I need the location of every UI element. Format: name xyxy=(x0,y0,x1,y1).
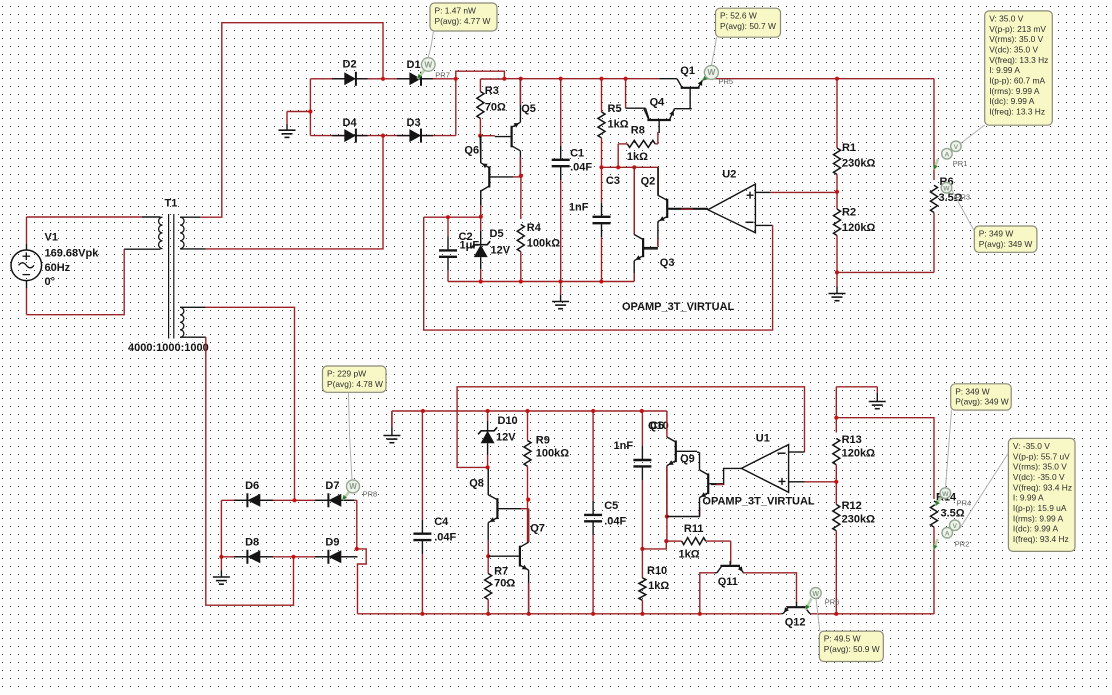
ground top bridge xyxy=(287,111,310,113)
junction mid rail R9 xyxy=(525,409,529,413)
probe PR6 tooltip xyxy=(819,631,883,661)
label R7 70ohm xyxy=(494,566,515,590)
wire Q3 emitter red xyxy=(633,273,635,282)
probe PR7 arrow xyxy=(418,70,426,79)
junction Q8 emitter node xyxy=(486,554,490,558)
probe PR7 tooltip xyxy=(430,3,497,31)
wire U1 minus feedback rail xyxy=(457,387,804,468)
capacitor C5 xyxy=(592,411,594,501)
wire Q4 collector branch xyxy=(625,79,627,109)
wire Q10 collector up xyxy=(666,411,668,437)
svg-text:1kΩ: 1kΩ xyxy=(679,549,700,561)
label R3 70ohm xyxy=(485,85,506,114)
svg-text:C6: C6 xyxy=(650,420,664,432)
probe PR4 leader xyxy=(946,410,952,487)
wire Q8 base to R9 line xyxy=(521,508,529,510)
svg-text:D1: D1 xyxy=(407,59,421,71)
svg-text:I: 9.99 A: I: 9.99 A xyxy=(989,65,1020,75)
probe PR8 tooltip xyxy=(323,366,387,392)
transistor Q7 xyxy=(519,546,521,567)
op-amp U1 minus sign xyxy=(778,452,786,454)
capacitor C2 xyxy=(447,217,449,236)
svg-text:D10: D10 xyxy=(498,415,518,427)
junction node C xyxy=(479,215,483,219)
diode D8 xyxy=(234,556,247,558)
probe PR6 leader xyxy=(816,599,820,632)
op-amp U2 plus sign xyxy=(747,192,754,199)
ground C1 rail xyxy=(560,282,562,295)
svg-text:R4: R4 xyxy=(527,222,542,234)
svg-text:1nF: 1nF xyxy=(569,202,589,214)
wire Q9 emitter to node xyxy=(667,516,700,518)
capacitor C3 xyxy=(601,167,603,203)
wire top amp bottom rail xyxy=(448,281,634,283)
diode D1 xyxy=(397,78,409,80)
wire bottom mid rail xyxy=(392,410,667,412)
svg-text:V: 35.0 V: V: 35.0 V xyxy=(989,13,1024,23)
wire Q11 base from R11 xyxy=(730,541,732,564)
svg-text:120kΩ: 120kΩ xyxy=(842,222,875,234)
junction bridge ground tap xyxy=(308,109,312,113)
diode D3 xyxy=(397,135,409,137)
svg-text:Q5: Q5 xyxy=(521,103,536,115)
svg-text:.04F: .04F xyxy=(434,532,456,544)
probe PR4 circle xyxy=(940,488,951,499)
svg-text:I(p-p): 15.9 uA: I(p-p): 15.9 uA xyxy=(1013,503,1067,513)
diode D7 xyxy=(315,499,328,501)
wire top bridge bottom rail xyxy=(310,135,455,137)
wire U2 plus input to R1 R2 node xyxy=(755,191,770,193)
label V1 value xyxy=(45,232,100,289)
probe PR8 leader xyxy=(349,393,353,480)
svg-text:A: A xyxy=(945,531,950,538)
wire Q8 collector up xyxy=(487,467,489,495)
capacitor C6 xyxy=(641,411,643,446)
op-amp U2 minus sign xyxy=(746,221,754,223)
svg-text:V(p-p): 213 mV: V(p-p): 213 mV xyxy=(989,24,1046,34)
transistor Q1 xyxy=(681,87,700,89)
svg-text:Q11: Q11 xyxy=(718,576,738,588)
wire bottom bridge bottom rail xyxy=(221,556,357,558)
wire R14 bottom xyxy=(933,527,935,614)
svg-text:W: W xyxy=(812,591,819,598)
probe PR1 circle V xyxy=(951,141,962,152)
resistor R2 xyxy=(836,192,838,209)
junction bottom rail R12 xyxy=(834,612,838,616)
svg-text:V: V xyxy=(954,144,959,151)
transistor Q8 xyxy=(496,498,498,519)
svg-text:1kΩ: 1kΩ xyxy=(627,151,648,163)
junction R2 bottom xyxy=(835,270,839,274)
svg-text:.04F: .04F xyxy=(570,162,592,174)
svg-text:U1: U1 xyxy=(756,433,770,445)
svg-text:V(dc): 35.0 V: V(dc): 35.0 V xyxy=(989,44,1038,54)
probe PR5 circle xyxy=(704,65,718,79)
svg-text:OPAMP_3T_VIRTUAL: OPAMP_3T_VIRTUAL xyxy=(622,301,735,313)
wire V1 bottom loop to transformer primary xyxy=(27,249,125,315)
svg-text:I(dc): 9.99 A: I(dc): 9.99 A xyxy=(1013,524,1059,534)
wire secondary top terminal up-over to bridge xyxy=(180,216,200,218)
svg-text:R12: R12 xyxy=(842,500,862,512)
svg-text:C3: C3 xyxy=(606,175,620,187)
svg-text:Q1: Q1 xyxy=(680,65,695,77)
probe PR1 circle A xyxy=(942,148,953,159)
svg-text:P(avg): 4.78 W: P(avg): 4.78 W xyxy=(327,379,383,389)
capacitor C1 xyxy=(560,79,562,146)
junction bottom rail R10 xyxy=(640,612,644,616)
svg-text:100kΩ: 100kΩ xyxy=(527,238,560,250)
resistor R1 xyxy=(836,79,838,148)
junction bottom rail Q11 xyxy=(698,612,702,616)
junction node D Q3 xyxy=(632,165,636,169)
probe PR3 circle xyxy=(941,182,952,193)
wire secondary lower bottom terminal loop to bottom bridge rail xyxy=(180,336,206,338)
junction top rail C1 xyxy=(559,77,563,81)
probe PR5 tooltip xyxy=(716,8,781,37)
junction mid rail C4 xyxy=(421,409,425,413)
resistor R3 xyxy=(479,79,481,92)
svg-text:R9: R9 xyxy=(536,435,550,447)
svg-text:V(rms): 35.0 V: V(rms): 35.0 V xyxy=(1013,462,1067,472)
svg-text:120kΩ: 120kΩ xyxy=(842,448,875,460)
wire bottom bridge top rail xyxy=(221,499,356,501)
label R2 120kohm xyxy=(842,207,875,235)
svg-text:Q3: Q3 xyxy=(660,257,675,269)
svg-text:D8: D8 xyxy=(245,537,259,549)
wire R6 bottom to R2 node xyxy=(837,271,934,273)
label R1 230kohm xyxy=(842,142,875,170)
svg-text:PR5: PR5 xyxy=(719,77,734,86)
svg-text:Q8: Q8 xyxy=(469,478,484,490)
label R12 230kohm xyxy=(842,500,875,526)
label R10 1kohm xyxy=(647,565,669,592)
transistor Q6 xyxy=(488,166,490,187)
svg-text:V(freq): 93.4 Hz: V(freq): 93.4 Hz xyxy=(1013,482,1072,492)
svg-text:3.5Ω: 3.5Ω xyxy=(941,508,965,520)
resistor R12 xyxy=(835,482,837,505)
svg-text:C1: C1 xyxy=(570,148,584,160)
wire R13 top xyxy=(835,387,837,433)
junction R3 bottom Q5 base node xyxy=(478,134,482,138)
svg-text:PR7: PR7 xyxy=(435,71,450,80)
svg-text:V(p-p): 55.7 uV: V(p-p): 55.7 uV xyxy=(1013,451,1070,461)
wire Q6 collector to node C xyxy=(480,190,482,217)
svg-text:U2: U2 xyxy=(722,169,736,181)
junction bottom bridge top tap xyxy=(292,498,296,502)
junction D10 bottom node xyxy=(486,465,490,469)
zener diode D5 xyxy=(480,217,482,231)
junction top rail R1 xyxy=(835,77,839,81)
wire Q7 collector red xyxy=(528,509,530,542)
transistor Q4 xyxy=(647,119,671,121)
svg-text:R10: R10 xyxy=(647,565,667,577)
junction bottom rail C5 xyxy=(591,612,595,616)
wire R8 left down to node D xyxy=(617,144,619,167)
ground top right net xyxy=(876,387,878,393)
junction bottom rail C1 xyxy=(559,279,563,283)
junction bottom rail R7 xyxy=(486,612,490,616)
label Q10 C6 overlap xyxy=(648,420,669,432)
wire Q5 base xyxy=(480,135,495,137)
probe PR2 tooltip xyxy=(1008,438,1075,551)
probe PR3 leader xyxy=(952,190,975,232)
wire Q11 collector to rail xyxy=(700,573,715,614)
probe PR2 circle V xyxy=(950,520,961,531)
svg-text:P: 49.5 W: P: 49.5 W xyxy=(824,634,861,644)
probe PR6 arrow xyxy=(806,599,812,610)
svg-text:I: 9.99 A: I: 9.99 A xyxy=(1013,493,1044,503)
svg-text:Q9: Q9 xyxy=(680,453,695,465)
svg-text:12V: 12V xyxy=(491,245,511,257)
svg-text:P(avg): 50.7 W: P(avg): 50.7 W xyxy=(720,21,776,31)
probe PR1 leader xyxy=(961,125,985,144)
resistor R10 xyxy=(641,549,643,578)
wire U1 plus input to R13 R12 node xyxy=(789,481,805,483)
junction R13 top tap xyxy=(834,416,838,420)
junction bottom rail C4 xyxy=(420,612,424,616)
svg-text:R1: R1 xyxy=(842,142,856,154)
wire R3 top xyxy=(480,78,504,80)
junction bottom rail Q7 xyxy=(527,612,531,616)
op-amp U2 xyxy=(708,184,756,233)
svg-text:D7: D7 xyxy=(325,480,339,492)
svg-text:W: W xyxy=(942,491,949,498)
probe PR4 arrow xyxy=(936,498,942,506)
wire Q4 base to R8 xyxy=(657,132,659,144)
resistor R7 xyxy=(487,556,489,573)
wire Q7 emitter red xyxy=(528,583,530,614)
probe PR5 arrow xyxy=(703,76,709,81)
svg-text:PR1: PR1 xyxy=(953,159,968,168)
svg-text:W: W xyxy=(943,186,950,193)
svg-text:R7: R7 xyxy=(494,566,508,578)
wire Q3 collector red xyxy=(633,167,635,234)
svg-text:A: A xyxy=(944,152,949,159)
wire secondary upper bottom terminal to bridge bottom xyxy=(180,248,206,250)
svg-text:C4: C4 xyxy=(434,516,449,528)
probe PR7 circle xyxy=(422,58,436,72)
junction bridge output xyxy=(454,77,458,81)
svg-text:C5: C5 xyxy=(604,500,618,512)
svg-text:R3: R3 xyxy=(485,85,499,97)
svg-text:PR6: PR6 xyxy=(825,598,840,607)
junction mid rail C5 xyxy=(591,409,595,413)
capacitor C4 xyxy=(421,411,423,520)
svg-text:I(dc): 9.99 A: I(dc): 9.99 A xyxy=(989,96,1035,106)
junction R1 R2 node xyxy=(835,190,839,194)
wire U2 minus feedback loop xyxy=(755,224,772,226)
svg-text:70Ω: 70Ω xyxy=(494,578,515,590)
wire bottom bridge right jog xyxy=(357,500,366,614)
label D5 12V xyxy=(490,228,511,257)
svg-text:I(p-p): 60.7 mA: I(p-p): 60.7 mA xyxy=(989,76,1045,86)
svg-text:V1: V1 xyxy=(45,232,58,244)
svg-text:D9: D9 xyxy=(325,537,339,549)
junction bottom rail R4 xyxy=(519,279,523,283)
junction R9 line dot xyxy=(526,498,530,502)
label R13 120kohm xyxy=(842,434,875,460)
svg-text:P(avg): 50.9 W: P(avg): 50.9 W xyxy=(824,644,880,654)
svg-text:100kΩ: 100kΩ xyxy=(536,448,569,460)
resistor R5 xyxy=(601,79,603,112)
svg-text:Q7: Q7 xyxy=(530,523,545,535)
wire Q3 base xyxy=(643,248,658,250)
svg-text:Q4: Q4 xyxy=(650,97,666,109)
junction node D R8 xyxy=(616,165,620,169)
label R5 1kohm xyxy=(608,103,629,131)
svg-text:V: V xyxy=(953,523,958,530)
svg-text:R8: R8 xyxy=(631,125,645,137)
probe PR8 circle xyxy=(347,480,360,493)
svg-text:1kΩ: 1kΩ xyxy=(648,580,669,592)
svg-text:.04F: .04F xyxy=(604,516,626,528)
wire node D horizontal xyxy=(602,166,635,168)
junction top rail R5 xyxy=(599,77,603,81)
wire Q4 collector diag xyxy=(646,108,649,119)
svg-text:V(rms): 35.0 V: V(rms): 35.0 V xyxy=(989,34,1043,44)
wire node C horizontal xyxy=(424,216,481,218)
wire U2 output to Q2 base xyxy=(669,208,708,210)
svg-text:169.68Vpk: 169.68Vpk xyxy=(45,248,100,260)
label R8 1kohm xyxy=(627,125,648,164)
svg-text:I(freq): 93.4 Hz: I(freq): 93.4 Hz xyxy=(1013,534,1069,544)
svg-text:D6: D6 xyxy=(245,480,259,492)
resistor R14 xyxy=(931,501,938,527)
svg-text:60Hz: 60Hz xyxy=(45,262,71,274)
transistor Q5 xyxy=(511,126,513,148)
transistor Q9 xyxy=(707,473,709,494)
label C5 .04F xyxy=(604,500,626,528)
resistor R13 xyxy=(833,438,840,464)
svg-text:V(dc): -35.0 V: V(dc): -35.0 V xyxy=(1013,472,1065,482)
svg-text:W: W xyxy=(707,67,716,77)
label C4 .04F xyxy=(434,516,456,544)
junction bottom bridge left xyxy=(219,555,223,559)
wire top bridge left side xyxy=(309,79,311,136)
svg-text:OPAMP_3T_VIRTUAL: OPAMP_3T_VIRTUAL xyxy=(702,496,815,508)
probe PR3 tooltip xyxy=(974,226,1037,252)
ground bottom mid rail xyxy=(391,411,393,427)
svg-text:Q12: Q12 xyxy=(785,617,806,629)
junction C6 R10 node xyxy=(640,547,644,551)
transformer T1 xyxy=(159,214,184,339)
resistor R11 xyxy=(666,540,681,542)
svg-text:W: W xyxy=(349,482,357,491)
label R4 100kohm xyxy=(527,222,560,250)
wire R13 top ground net xyxy=(836,386,877,388)
svg-text:V: -35.0 V: V: -35.0 V xyxy=(1013,441,1050,451)
svg-text:PR2: PR2 xyxy=(955,540,970,549)
label R11 1kohm xyxy=(679,523,704,561)
svg-text:D4: D4 xyxy=(343,117,358,129)
op-amp U1 plus sign xyxy=(779,478,786,485)
wire node B down to R4 xyxy=(520,176,522,219)
wire Q10 base to Q9 collector xyxy=(697,451,699,453)
junction bridge jog xyxy=(355,547,359,551)
diode D4 xyxy=(332,135,344,137)
AC source V1 xyxy=(11,217,42,315)
svg-text:1nF: 1nF xyxy=(614,440,634,452)
svg-text:P(avg): 349 W: P(avg): 349 W xyxy=(955,397,1009,407)
wire Q11 emitter to Q12 base xyxy=(743,573,797,603)
junction top bridge AC tap xyxy=(381,77,385,81)
junction bottom rail C3 xyxy=(599,279,603,283)
resistor R6 xyxy=(931,185,938,212)
wire to R14 top xyxy=(836,418,934,499)
svg-text:P: 52.6 W: P: 52.6 W xyxy=(720,11,757,21)
svg-text:V(freq): 13.3 Hz: V(freq): 13.3 Hz xyxy=(989,55,1048,65)
probe PR1 tooltip xyxy=(985,11,1053,125)
svg-text:P: 349 W: P: 349 W xyxy=(955,386,990,396)
label C2 1uF xyxy=(459,231,480,252)
label D10 12V xyxy=(496,415,518,444)
svg-text:D5: D5 xyxy=(490,228,504,240)
wire V1 top to transformer primary xyxy=(27,216,142,218)
wire Q10 emitter red xyxy=(666,466,668,541)
svg-text:R5: R5 xyxy=(608,103,622,115)
wire top rail xyxy=(504,78,659,80)
resistor R4 xyxy=(517,224,524,251)
svg-text:D3: D3 xyxy=(407,117,421,129)
svg-text:70Ω: 70Ω xyxy=(485,102,506,114)
probe PR2 circle A xyxy=(942,527,953,538)
zener diode D10 xyxy=(487,411,489,421)
junction R13 R12 node xyxy=(834,480,838,484)
transistor Q12 xyxy=(787,606,807,608)
wire R11 node jog xyxy=(642,541,666,549)
svg-text:0°: 0° xyxy=(45,276,56,288)
svg-text:R2: R2 xyxy=(842,207,856,219)
svg-text:T1: T1 xyxy=(165,198,178,210)
junction mid rail D10 xyxy=(486,409,490,413)
svg-text:P(avg): 4.77 W: P(avg): 4.77 W xyxy=(435,16,491,26)
svg-text:230kΩ: 230kΩ xyxy=(842,158,875,170)
wire Q8 emitter red xyxy=(487,540,489,556)
svg-text:I(freq): 13.3 Hz: I(freq): 13.3 Hz xyxy=(989,107,1045,117)
svg-text:Q6: Q6 xyxy=(464,145,479,157)
transistor Q2 xyxy=(666,199,668,218)
wire top bridge top rail xyxy=(310,78,455,80)
ground bottom bridge xyxy=(220,557,222,570)
probe PR1 arrow xyxy=(934,159,938,170)
probe PR2 arrow xyxy=(934,539,938,550)
junction C2 top xyxy=(446,215,450,219)
wire U1 minus lead xyxy=(789,451,805,453)
svg-text:230kΩ: 230kΩ xyxy=(842,514,875,526)
probe PR7 leader xyxy=(428,31,433,58)
svg-text:PR4: PR4 xyxy=(957,499,972,508)
probe PR6 circle xyxy=(810,588,821,599)
wire node A down to Q6 emitter xyxy=(479,136,482,163)
probe PR8 arrow xyxy=(343,492,350,500)
op-amp U1 xyxy=(741,445,788,493)
svg-text:R13: R13 xyxy=(842,434,862,446)
diode D2 xyxy=(332,78,344,80)
wire U1 output to Q9 base xyxy=(711,468,741,484)
wire output right side down xyxy=(933,79,935,180)
junction node B xyxy=(519,174,523,178)
svg-text:W: W xyxy=(424,59,432,69)
junction R11 node xyxy=(664,539,668,543)
junction mid rail C6 xyxy=(640,409,644,413)
label R9 100kohm xyxy=(536,435,569,460)
svg-text:P(avg): 349 W: P(avg): 349 W xyxy=(979,239,1033,249)
wire bottom bridge left side xyxy=(220,500,222,557)
svg-text:4000:1000:1000: 4000:1000:1000 xyxy=(128,342,209,354)
svg-text:P: 349 W: P: 349 W xyxy=(979,229,1014,239)
svg-text:I(rms): 9.99 A: I(rms): 9.99 A xyxy=(989,86,1040,96)
svg-text:P: 1.47 nW: P: 1.47 nW xyxy=(435,6,477,16)
